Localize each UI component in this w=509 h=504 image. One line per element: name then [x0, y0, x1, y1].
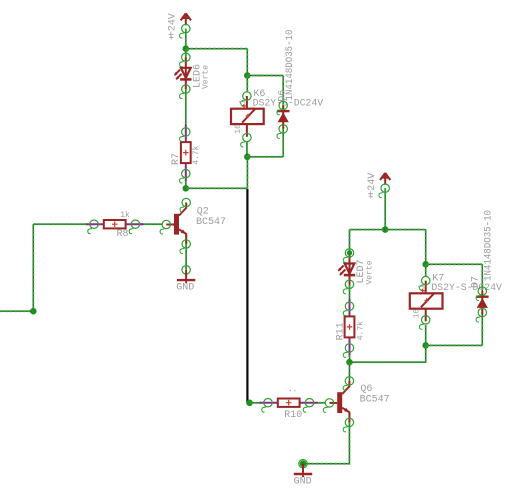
svg-text:R11: R11 [336, 322, 347, 340]
black wire long vertical net [246, 189, 248, 403]
resistor R8 [86, 220, 144, 228]
wire R11 bottom to junction [349, 355, 351, 362]
wire R10 to Q6 base [314, 402, 326, 404]
wire black net end to R10 [250, 402, 263, 404]
pin circle D7 top [476, 287, 486, 301]
svg-text:1k: 1k [120, 211, 130, 220]
resistor R11 [345, 299, 355, 355]
svg-text:R8: R8 [117, 229, 129, 240]
svg-text:GND: GND [176, 283, 194, 294]
junction relay top [244, 72, 251, 79]
pin circle K6 pin16 [241, 133, 251, 147]
junction GND circuit 2 [300, 460, 307, 467]
pin circle D6 top [277, 101, 287, 115]
svg-text:Q6: Q6 [360, 384, 372, 395]
svg-text:1: 1 [239, 99, 248, 104]
pin circle D7 bottom [476, 308, 486, 322]
power +24V symbol (circuit 2) [380, 173, 390, 185]
transistor Q2 BC547 [166, 203, 186, 245]
wire to left edge [0, 310, 33, 312]
junction black net to R10 [246, 400, 253, 407]
diode D7 [476, 291, 489, 315]
wire K7 pin16 stub [425, 325, 427, 345]
pin circle K7 pin16 [419, 316, 429, 330]
wire net N$1 vertical from +24V to junction (circuit 1) [185, 29, 187, 49]
wire horizontal relay bottom to diode bottom [247, 156, 283, 158]
svg-text:R7: R7 [171, 153, 182, 165]
wire Q6 emitter down and left to GND [303, 413, 349, 464]
wire collector junction to black net [186, 187, 248, 189]
ground GND circuit 2 [294, 460, 312, 478]
junction dot inside LED7 anode pin [347, 250, 352, 255]
svg-text:16: 16 [413, 309, 422, 319]
pin circle +24V c2 [379, 184, 389, 198]
pin circle R8 right [129, 220, 139, 234]
svg-text:DS2Y-S-DC24V: DS2Y-S-DC24V [431, 283, 502, 294]
junction top circuit 2 [382, 226, 389, 233]
faint value dots above R10 [290, 390, 296, 392]
pin circle LED7 anode [343, 249, 353, 263]
relay K6 coil [231, 96, 264, 137]
LED LED6 [174, 57, 191, 89]
wire junction to Q6 collector [348, 362, 350, 381]
wire LED7 to R11 [349, 284, 351, 300]
svg-text:GND: GND [294, 477, 312, 488]
pin circle D6 bottom [277, 125, 287, 139]
relay K7 coil [410, 281, 443, 322]
wire horizontal to diode D6 branch [247, 75, 283, 77]
svg-text:+24V: +24V [168, 13, 179, 37]
svg-text:R10: R10 [284, 410, 302, 421]
wire down to D7 anode [481, 264, 483, 291]
resistor R10 [260, 399, 318, 407]
pin circle R11 bottom [343, 344, 353, 358]
svg-text:BC547: BC547 [196, 217, 226, 228]
wire down to LED7 [349, 230, 351, 253]
wire down to diode D6 anode [282, 76, 284, 106]
pin circle +24V c1 [180, 24, 190, 38]
wire horizontal to diode D7 [426, 263, 483, 265]
svg-text:BC547: BC547 [360, 394, 390, 405]
wire relay K6 pin16 stub [246, 142, 248, 157]
diode D6 [277, 105, 290, 128]
junction relay K7 bottom [422, 342, 429, 349]
svg-text:D7: D7 [471, 276, 482, 288]
pin circle R11 top [343, 302, 353, 316]
pin circle R8 left [88, 220, 98, 234]
pin circle K7 pin1 [419, 276, 429, 290]
pin circle Q6 base [323, 399, 333, 413]
pin circle R7 bottom [180, 169, 190, 183]
power +24V symbol (circuit 1) [181, 13, 191, 25]
LED LED7 [338, 253, 355, 285]
wire base input horizontal (circuit 1) [33, 223, 88, 225]
wire top horizontal to relay branch [186, 48, 248, 50]
wire LED6 cathode to R7 [185, 89, 187, 126]
junction relay K7 top [422, 261, 429, 268]
wire relay bottom down then left to collector junction [350, 345, 426, 362]
junction relay bottom [244, 154, 251, 161]
origin cross +24V c1 [169, 36, 173, 40]
wire +24V vertical (circuit 2) [384, 188, 386, 229]
svg-text:Verte: Verte [365, 260, 374, 284]
resistor R7 [181, 124, 191, 180]
svg-text:16: 16 [234, 124, 243, 134]
junction at top of circuit 1 [183, 45, 190, 52]
pin circle Q6 collector [343, 377, 353, 391]
wire top horizontal circuit 2 [350, 229, 426, 231]
wire R8 to Q2 base [140, 223, 163, 225]
svg-text:Q2: Q2 [197, 206, 209, 217]
wire vertical down to relay top junction [246, 49, 248, 76]
svg-text:1N4148DO35-10: 1N4148DO35-10 [285, 30, 296, 101]
pin circle Q6 emitter [343, 418, 353, 432]
wire from junction down to LED6 [185, 49, 187, 58]
svg-text:+24V: +24V [367, 173, 378, 197]
wire diode D6 cathode down [282, 129, 284, 157]
pin circle Q2 collector [180, 198, 190, 212]
junction left input [30, 308, 37, 315]
origin cross +24V c2 [369, 194, 373, 198]
svg-text:4.7k: 4.7k [192, 145, 201, 164]
ground GND circuit 1 [177, 266, 195, 284]
wire D7 cathode down [481, 313, 483, 346]
wire K7 pin1 stub [425, 264, 427, 276]
wire horizontal relay bottom to D7 [426, 344, 483, 346]
pin circle Q2 base [160, 220, 170, 234]
pin circle R10 right [303, 399, 313, 413]
pin circle Q2 emitter [180, 240, 190, 254]
wire R7 bottom to collector junction [185, 180, 187, 188]
wire vertical relay bottom to collector row [246, 157, 248, 189]
transistor Q6 BC547 [330, 381, 350, 423]
pin circle LED7 cathode [343, 280, 353, 294]
svg-text:Verte: Verte [202, 65, 211, 89]
pin circle R10 left [262, 399, 272, 413]
pin circle LED6 cathode [180, 85, 190, 99]
pin circle R7 top [180, 128, 190, 142]
wire left vertical input [32, 224, 34, 311]
junction Q2 collector [183, 185, 190, 192]
pin circle LED6 anode [180, 53, 190, 67]
svg-text:1: 1 [417, 284, 426, 289]
pin circle K6 pin1 [241, 92, 251, 106]
svg-text:1N4148DO35-10: 1N4148DO35-10 [484, 210, 495, 281]
wire relay K6 pin1 stub [246, 76, 248, 93]
junction Q6 collector [346, 359, 353, 366]
wire right branch down to relay K7 junction [425, 230, 427, 265]
svg-text:4.7k: 4.7k [357, 321, 366, 340]
wire Q2 emitter to GND [185, 235, 187, 270]
